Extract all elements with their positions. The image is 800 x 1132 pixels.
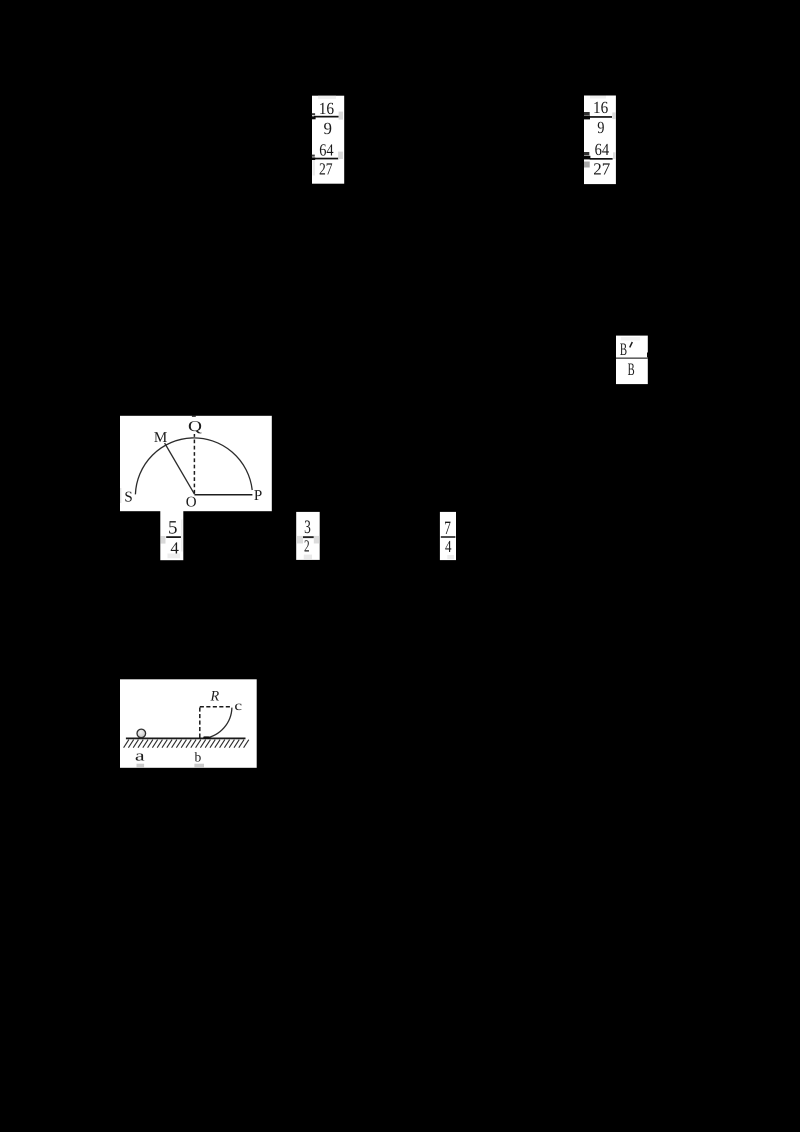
svg-text:a: a [135, 749, 145, 765]
fraction bar of 5/4 [166, 536, 181, 538]
svg-text:P: P [254, 488, 262, 504]
svg-text:4: 4 [445, 537, 452, 556]
dashed horizontal radius R [200, 706, 232, 708]
equation image 1: =16/9 ... =64/27 white patch [312, 96, 344, 184]
figure: semicircle S-Q-P with centre O [120, 416, 272, 511]
svg-text:27: 27 [593, 159, 611, 178]
fraction bar of 3/2 [300, 536, 314, 538]
svg-text:16: 16 [593, 98, 608, 117]
gray squares at bottom [137, 764, 145, 768]
gray smudge at left edge [120, 488, 121, 503]
equation image: B'/B white patch [616, 336, 648, 385]
gray marks around 3/2 [296, 536, 303, 544]
fraction 3/2 white patch [296, 512, 320, 560]
fraction bar of 64/27 [590, 158, 613, 160]
ground hatching [124, 740, 249, 748]
black tick at top edge [192, 415, 196, 418]
fraction 5/4 white patch below figure [160, 511, 183, 560]
svg-text:5: 5 [168, 517, 178, 538]
gray highlight right of 64/27 bar [613, 152, 616, 159]
equals sign remnant left of 16/9 [312, 113, 315, 115]
gray square lower-left of 27 [584, 162, 590, 168]
svg-text:64: 64 [319, 140, 334, 159]
dashed radius O to Q [193, 434, 195, 494]
equals sign remnant left of 64/27 [584, 152, 589, 155]
svg-text:M: M [154, 430, 167, 446]
dark blob where ramp meets ground [203, 736, 210, 739]
svg-text:Q: Q [188, 419, 202, 435]
svg-text:R: R [210, 689, 220, 705]
dashed vertical radius above b [199, 706, 201, 738]
equals sign remnant left of 64/27 [312, 155, 315, 157]
figure: ball rolling to quarter-circle ramp abc [120, 679, 257, 768]
ball at a [137, 729, 146, 738]
gray mark below 7/4 [447, 555, 454, 559]
equation image 2: =16/9 ... =64/27 white patch [584, 96, 616, 185]
gray marks around 5/4 [161, 536, 166, 544]
white patch [120, 416, 272, 511]
svg-text:7: 7 [444, 518, 451, 539]
equals sign remnant left of 16/9 [584, 112, 590, 115]
svg-text:B: B [628, 359, 635, 379]
ground line [126, 738, 246, 740]
svg-text:2: 2 [304, 537, 310, 556]
fraction 7/4 white patch [440, 512, 456, 560]
semicircle arc from S to P [135, 438, 252, 494]
svg-text:B: B [620, 339, 627, 359]
svg-text:c: c [234, 698, 242, 713]
svg-text:3: 3 [304, 517, 311, 538]
fraction bar of 16/9 [314, 116, 339, 118]
gray highlight right of 16/9 bar [612, 112, 615, 119]
svg-text:9: 9 [324, 119, 332, 138]
gray highlight right of 16/9 bar [339, 112, 343, 120]
svg-text:b: b [195, 749, 202, 764]
svg-text:O: O [186, 495, 197, 511]
radius O to P [194, 494, 252, 496]
prime mark [630, 342, 633, 347]
fraction bar of 7/4 [441, 536, 456, 538]
fraction bar of 16/9 [589, 116, 612, 118]
svg-text:16: 16 [319, 99, 334, 118]
gray highlight right of 64/27 bar [338, 152, 343, 159]
svg-text:27: 27 [319, 159, 333, 178]
fraction bar of 64/27 [314, 158, 338, 160]
svg-text:64: 64 [595, 140, 610, 159]
white patch [120, 679, 257, 768]
black tick at right edge above bar [647, 353, 649, 358]
chord M to O [165, 443, 195, 494]
fraction bar of B'/B [616, 358, 648, 359]
svg-text:9: 9 [597, 118, 604, 137]
quarter-circle ramp arc to c [205, 708, 232, 739]
svg-text:S: S [124, 490, 132, 506]
